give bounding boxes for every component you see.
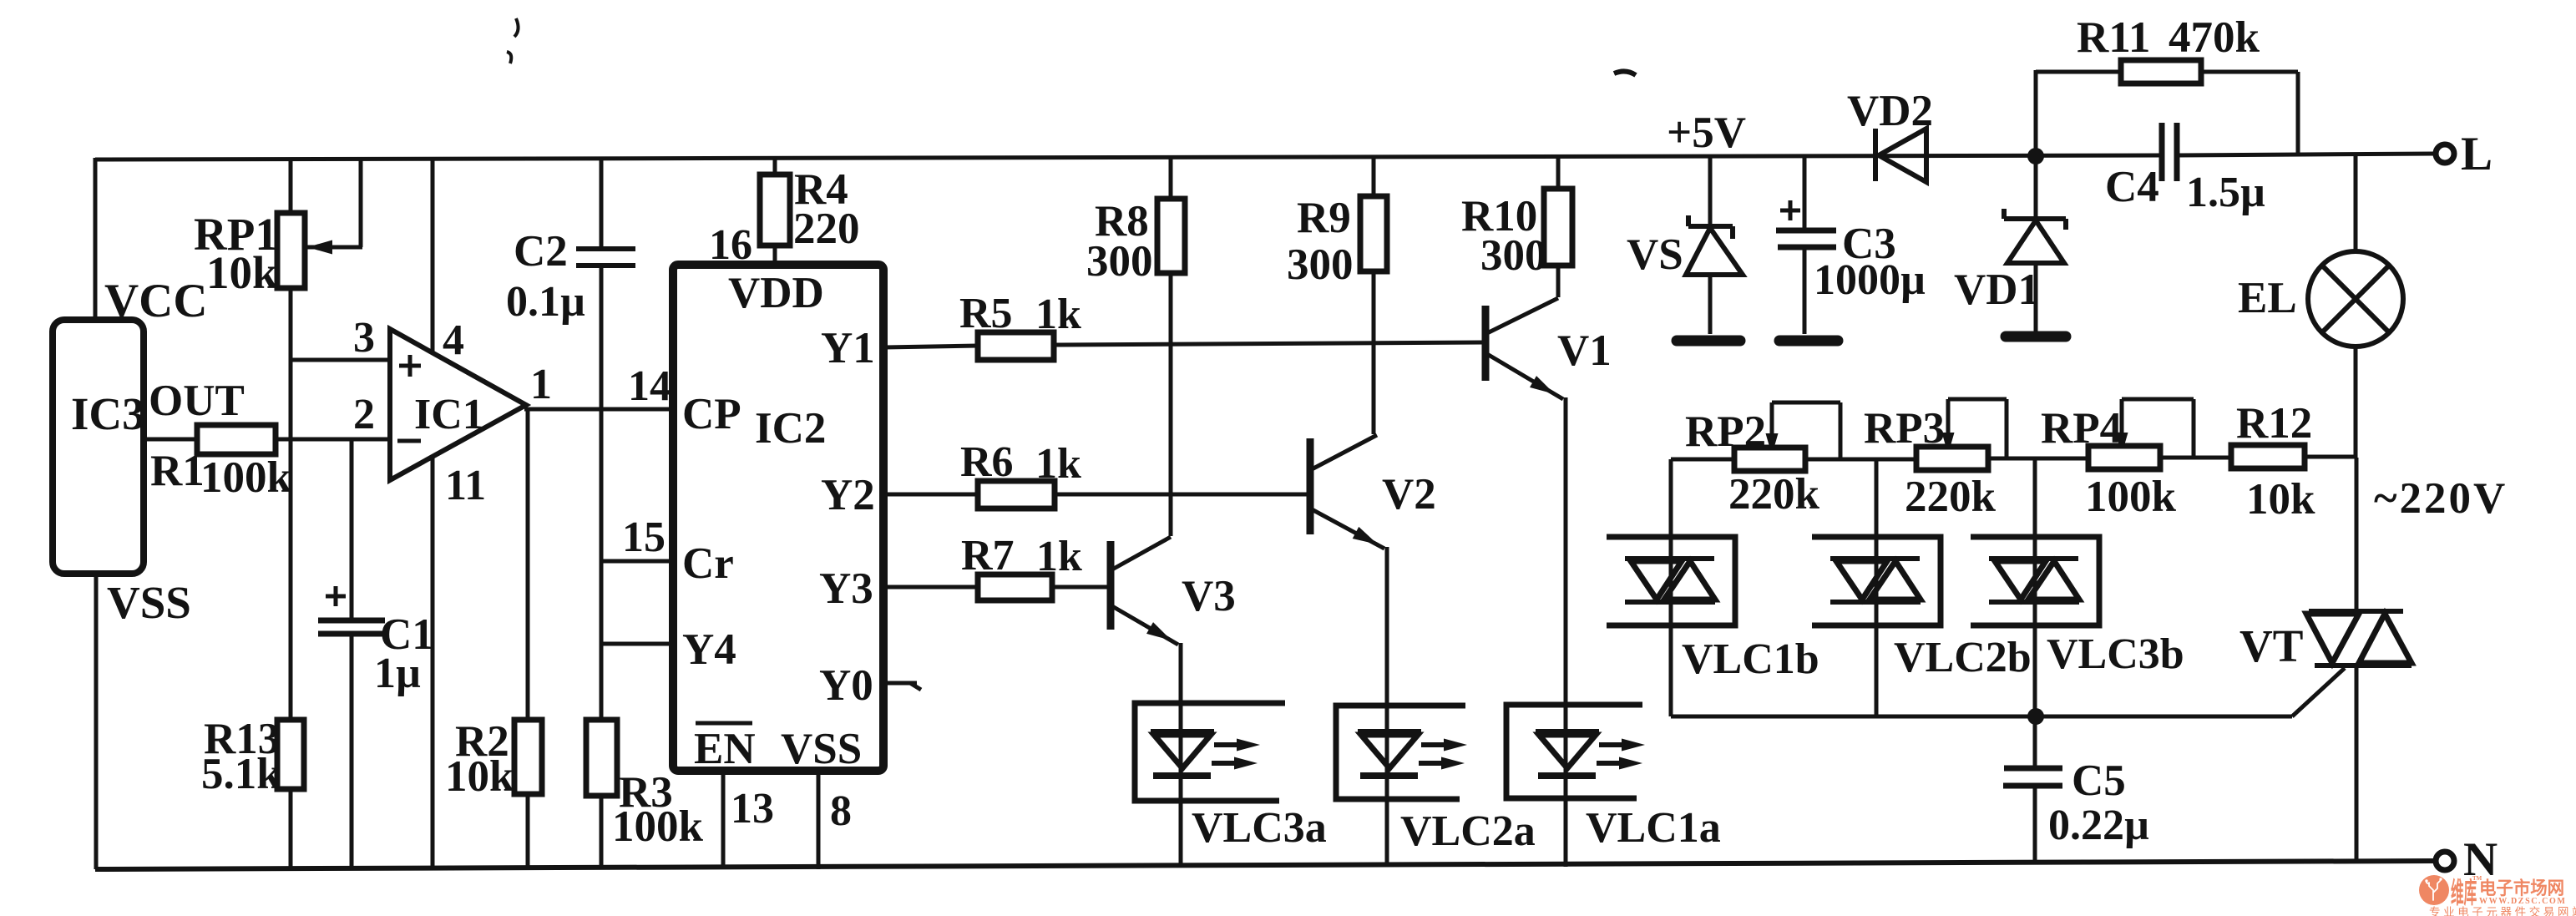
svg-text:Y2: Y2 [821,471,875,519]
svg-text:100k: 100k [200,453,292,502]
svg-text:15: 15 [622,514,666,561]
svg-text:VT: VT [2239,620,2303,671]
svg-text:V3: V3 [1182,572,1236,620]
svg-text:5.1k: 5.1k [201,750,281,798]
svg-text:C5: C5 [2072,757,2126,805]
svg-text:220k: 220k [1728,470,1820,519]
svg-text:220: 220 [793,205,860,253]
svg-text:300: 300 [1086,237,1153,286]
svg-text:8: 8 [830,787,852,835]
svg-text:10k: 10k [206,247,278,298]
svg-text:电子市场网: 电子市场网 [2479,878,2564,899]
svg-text:1: 1 [530,361,552,408]
svg-text:1.5µ: 1.5µ [2186,169,2265,216]
svg-text:1k: 1k [1036,533,1082,580]
svg-text:EN: EN [694,725,756,773]
svg-text:11: 11 [445,462,486,509]
svg-text:1µ: 1µ [374,650,421,697]
svg-text:3: 3 [353,314,375,362]
svg-text:IC3: IC3 [71,388,145,439]
svg-text:0.1µ: 0.1µ [506,278,585,326]
svg-text:RP4: RP4 [2041,404,2122,453]
svg-text:VLC3a: VLC3a [1192,804,1327,852]
svg-text:R11: R11 [2077,13,2150,62]
svg-text:VLC3b: VLC3b [2047,630,2184,678]
svg-text:RP3: RP3 [1864,404,1945,453]
svg-text:C4: C4 [2105,163,2159,211]
svg-text:220k: 220k [1905,473,1997,521]
svg-text:R7: R7 [961,532,1015,579]
svg-text:IC1: IC1 [414,391,484,438]
svg-text:OUT: OUT [149,377,245,425]
svg-text:Cr: Cr [682,539,734,588]
svg-text:0.22µ: 0.22µ [2048,802,2149,849]
svg-text:R1: R1 [150,447,205,495]
svg-text:Y0: Y0 [819,661,873,710]
svg-text:VDD: VDD [728,269,824,317]
svg-text:VS: VS [1627,230,1683,279]
svg-text:IC2: IC2 [755,404,826,453]
svg-text:Y1: Y1 [821,324,875,372]
svg-text:+5V: +5V [1667,109,1746,157]
svg-text:R5: R5 [959,290,1013,337]
svg-text:10k: 10k [445,752,514,801]
svg-text:R9: R9 [1297,194,1351,242]
svg-text:16: 16 [709,221,752,269]
svg-text:Y4: Y4 [682,625,736,674]
svg-text:10k: 10k [2246,475,2315,524]
svg-text:~220V: ~220V [2374,474,2508,523]
svg-text:TM: TM [2472,875,2482,882]
svg-text:EL: EL [2238,274,2297,322]
svg-text:VD1: VD1 [1954,266,2040,314]
svg-text:专业电子元器件交易网站: 专业电子元器件交易网站 [2429,905,2576,916]
svg-text:470k: 470k [2169,13,2260,62]
svg-text:300: 300 [1287,240,1354,289]
svg-text:13: 13 [731,785,774,832]
svg-text:L: L [2461,128,2492,180]
svg-text:Y3: Y3 [819,564,873,613]
svg-text:V2: V2 [1382,470,1436,519]
svg-text:R6: R6 [960,438,1014,486]
svg-text:VSS: VSS [107,577,191,628]
svg-text:1k: 1k [1035,291,1081,338]
svg-text:C2: C2 [514,227,568,276]
svg-text:VD2: VD2 [1847,87,1933,135]
svg-text:4: 4 [443,316,464,364]
svg-text:VLC2b: VLC2b [1894,634,2032,681]
svg-text:VCC: VCC [104,275,208,327]
svg-text:1000µ: 1000µ [1814,256,1926,304]
svg-text:VLC1b: VLC1b [1682,635,1819,683]
svg-text:2: 2 [353,391,375,438]
svg-text:V1: V1 [1557,326,1612,375]
svg-text:14: 14 [628,362,671,410]
svg-text:RP2: RP2 [1685,407,1766,456]
svg-text:100k: 100k [612,802,704,851]
svg-text:R12: R12 [2236,399,2312,448]
svg-text:300: 300 [1480,231,1547,280]
svg-text:VLC2a: VLC2a [1400,807,1536,855]
svg-text:1k: 1k [1035,440,1081,488]
svg-text:WWW.DZSC.COM: WWW.DZSC.COM [2479,897,2566,906]
svg-text:VSS: VSS [781,725,862,773]
svg-text:CP: CP [682,390,741,438]
svg-text:VLC1a: VLC1a [1586,804,1721,852]
svg-text:100k: 100k [2085,473,2177,521]
